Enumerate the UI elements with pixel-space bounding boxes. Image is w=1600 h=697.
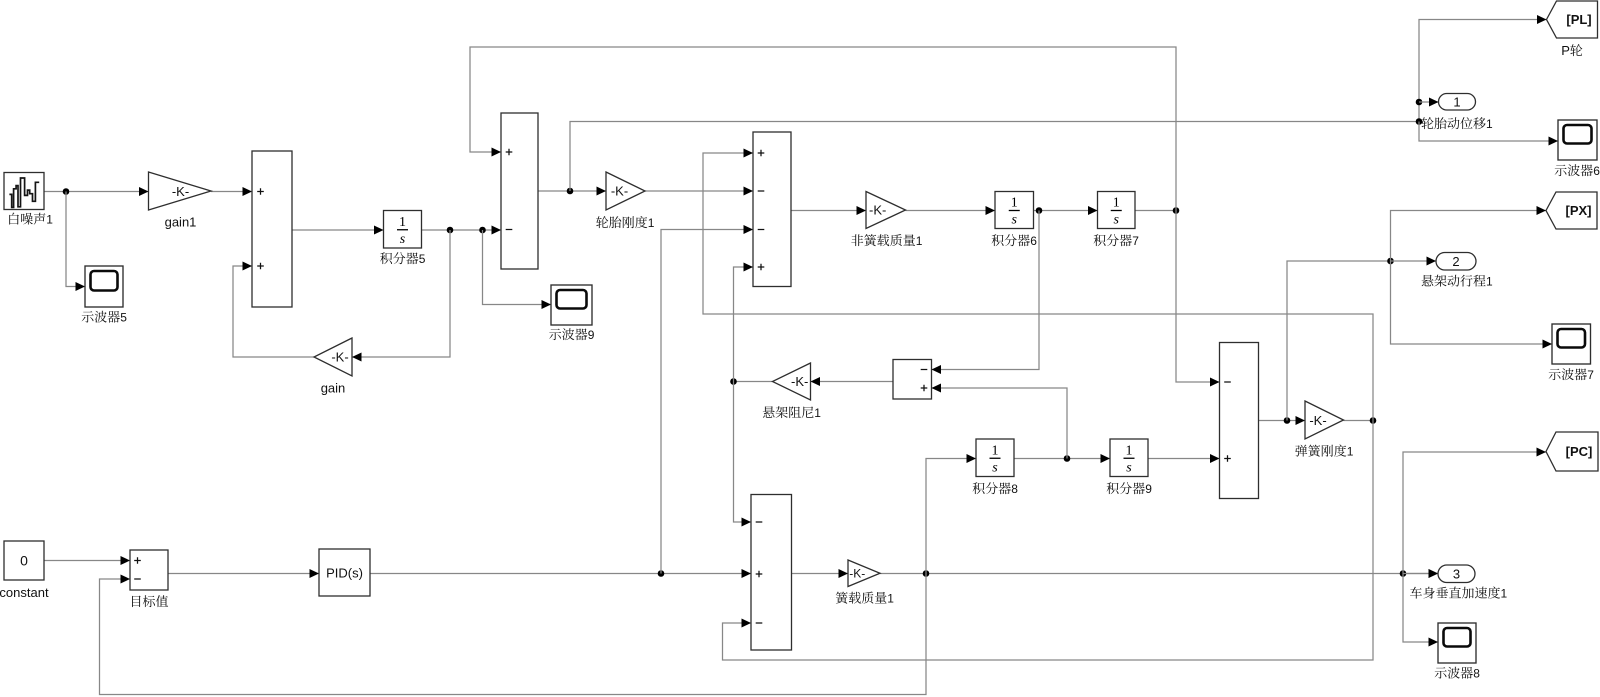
svg-text:9: 9 (1145, 482, 1152, 496)
svg-text:2: 2 (1452, 254, 1459, 269)
svg-text:s: s (1126, 460, 1132, 475)
svg-text:s: s (1012, 213, 1018, 228)
svg-text:9: 9 (588, 328, 595, 342)
svg-text:1: 1 (1486, 275, 1493, 289)
svg-text:1: 1 (46, 213, 53, 227)
svg-text:-K-: -K- (849, 567, 865, 581)
svg-text:1: 1 (1011, 196, 1018, 211)
svg-text:gain1: gain1 (165, 215, 197, 230)
svg-text:1: 1 (648, 216, 655, 230)
svg-text:s: s (1114, 213, 1120, 228)
svg-text:-K-: -K- (791, 374, 808, 389)
svg-text:s: s (992, 460, 998, 475)
svg-text:8: 8 (1473, 667, 1480, 681)
svg-text:7: 7 (1132, 234, 1139, 248)
svg-text:s: s (400, 232, 406, 247)
svg-text:1: 1 (1347, 445, 1354, 459)
svg-text:6: 6 (1593, 164, 1600, 178)
svg-text:-K-: -K- (331, 350, 348, 365)
svg-text:-K-: -K- (611, 184, 628, 199)
svg-text:P: P (1561, 43, 1570, 58)
svg-text:-K-: -K- (172, 184, 189, 199)
svg-text:PID(s): PID(s) (326, 566, 363, 581)
svg-text:1: 1 (887, 592, 894, 606)
svg-text:1: 1 (399, 215, 406, 230)
svg-text:1: 1 (1501, 587, 1508, 601)
svg-text:1: 1 (992, 443, 999, 458)
svg-text:-K-: -K- (869, 203, 886, 218)
svg-text:8: 8 (1011, 482, 1018, 496)
svg-text:6: 6 (1030, 234, 1037, 248)
svg-text:constant: constant (0, 585, 49, 600)
svg-text:1: 1 (916, 234, 923, 248)
svg-text:[PC]: [PC] (1566, 444, 1593, 459)
svg-text:5: 5 (419, 252, 426, 266)
svg-text:1: 1 (1126, 443, 1133, 458)
svg-text:[PL]: [PL] (1566, 12, 1591, 27)
svg-text:1: 1 (1486, 117, 1493, 131)
svg-text:7: 7 (1587, 368, 1594, 382)
svg-text:3: 3 (1453, 566, 1460, 581)
svg-text:1: 1 (814, 406, 821, 420)
svg-text:5: 5 (120, 311, 127, 325)
svg-text:1: 1 (1113, 196, 1120, 211)
svg-text:-K-: -K- (1309, 413, 1326, 428)
svg-text:0: 0 (20, 553, 28, 569)
svg-text:1: 1 (1453, 94, 1460, 109)
svg-text:[PX]: [PX] (1566, 203, 1592, 218)
svg-text:gain: gain (321, 381, 346, 396)
